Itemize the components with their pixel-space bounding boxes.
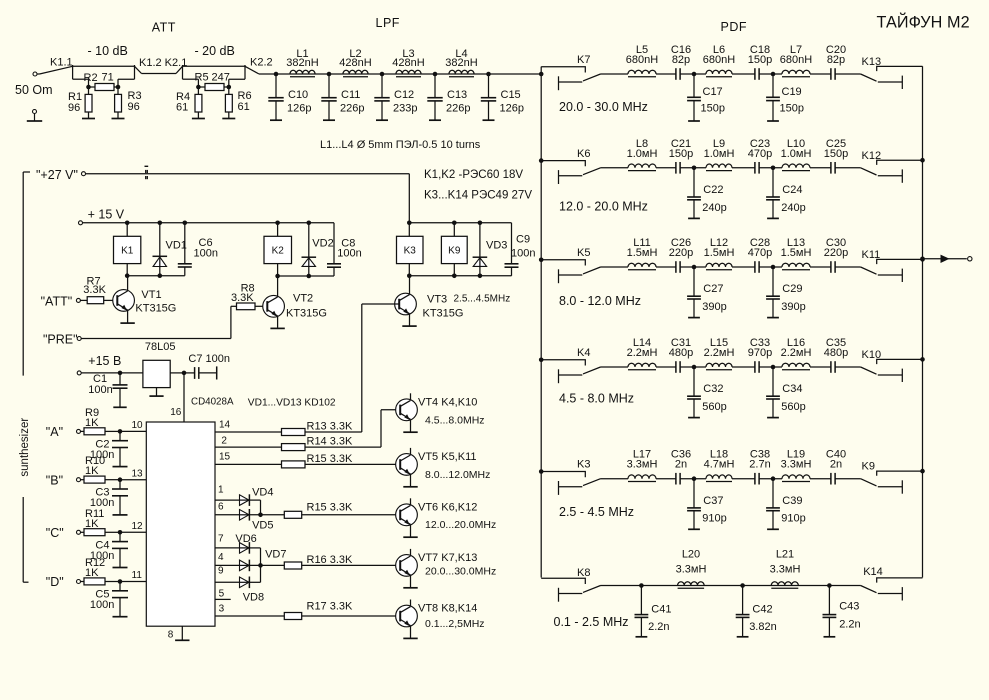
capacitor C1 100n bbox=[119, 373, 121, 385]
svg-text:910p: 910p bbox=[702, 513, 726, 525]
svg-text:C34: C34 bbox=[782, 383, 802, 395]
wire B to pin 13 bbox=[120, 479, 146, 481]
wire K3 bottom bus bbox=[409, 275, 511, 277]
svg-text:480p: 480p bbox=[669, 347, 693, 359]
svg-text:PDF: PDF bbox=[721, 20, 748, 34]
svg-text:3.3мН: 3.3мН bbox=[676, 564, 707, 576]
svg-text:5: 5 bbox=[219, 589, 225, 600]
svg-text:C27: C27 bbox=[703, 283, 723, 295]
svg-text:- 10 dB: - 10 dB bbox=[88, 44, 128, 58]
svg-text:2n: 2n bbox=[675, 459, 687, 471]
svg-text:C7 100n: C7 100n bbox=[188, 353, 230, 365]
svg-text:K4: K4 bbox=[577, 347, 590, 359]
node C43 top bbox=[827, 583, 832, 588]
capacitor C43 2.2n bbox=[828, 586, 830, 615]
wire bbox=[810, 266, 831, 268]
svg-text:150p: 150p bbox=[669, 148, 693, 160]
inductor L3 428nH bbox=[396, 70, 421, 74]
svg-text:680nH: 680nH bbox=[703, 54, 735, 66]
svg-text:VT6 K6,K12: VT6 K6,K12 bbox=[418, 502, 477, 514]
capacitor C24 240p bbox=[772, 168, 774, 197]
svg-text:61: 61 bbox=[238, 101, 250, 113]
svg-text:+ 15 V: + 15 V bbox=[88, 208, 125, 222]
node C7 junction bbox=[182, 371, 187, 376]
wire bbox=[810, 366, 831, 368]
wire +15B to 78L05 bbox=[81, 372, 143, 374]
svg-text:390p: 390p bbox=[702, 301, 726, 313]
svg-text:240p: 240p bbox=[702, 202, 726, 214]
node VD4 VD5 junction bbox=[258, 513, 263, 518]
svg-text:L21: L21 bbox=[776, 549, 794, 561]
svg-text:2.2n: 2.2n bbox=[648, 621, 669, 633]
diode VD5 bbox=[240, 510, 250, 521]
svg-text:K14: K14 bbox=[863, 566, 883, 578]
transistor VT2 KT315G bbox=[263, 295, 285, 317]
node shunt1 bbox=[692, 166, 697, 171]
svg-text:VD6: VD6 bbox=[235, 533, 256, 545]
node K3 bottom bbox=[407, 274, 412, 279]
node shunt1 bbox=[692, 476, 697, 481]
wire VD8 out bbox=[249, 581, 260, 583]
node K1 bottom bbox=[125, 273, 130, 278]
svg-text:C19: C19 bbox=[782, 86, 802, 98]
wire pin16 bbox=[183, 373, 185, 422]
wire VD6 out bbox=[249, 547, 260, 549]
wire PRE to R8 bbox=[81, 338, 231, 340]
inductor L21 3.3мН bbox=[771, 582, 798, 586]
node shunt2 bbox=[771, 72, 776, 77]
svg-text:K6: K6 bbox=[577, 148, 590, 160]
svg-text:VT1: VT1 bbox=[141, 289, 161, 301]
wire row bbox=[601, 266, 629, 268]
resistor R1 96 bbox=[88, 79, 90, 94]
svg-text:K3: K3 bbox=[404, 246, 417, 257]
svg-text:1K: 1K bbox=[85, 417, 99, 429]
inductor L9 1.0мН bbox=[706, 164, 732, 168]
svg-text:78L05: 78L05 bbox=[145, 341, 176, 353]
svg-text:480p: 480p bbox=[824, 347, 848, 359]
wire row bbox=[601, 73, 629, 75]
svg-text:680nH: 680nH bbox=[780, 54, 812, 66]
wire row bbox=[601, 478, 629, 480]
svg-text:12: 12 bbox=[132, 521, 144, 532]
IC CD4028A bbox=[146, 422, 215, 626]
svg-text:K9: K9 bbox=[862, 461, 875, 473]
wire bbox=[810, 73, 831, 75]
bus left PDF bbox=[540, 67, 542, 578]
inductor L2 428nH bbox=[343, 70, 368, 74]
node VD6 VD7 junction bbox=[258, 563, 263, 568]
transistor VT1 KT315G bbox=[113, 290, 135, 312]
svg-text:C11: C11 bbox=[341, 89, 360, 101]
svg-text:K7: K7 bbox=[577, 54, 590, 66]
resistor R11 1K bbox=[81, 531, 85, 533]
node C6 top bbox=[183, 221, 188, 226]
svg-text:1: 1 bbox=[218, 485, 224, 496]
svg-text:R16 3.3K: R16 3.3K bbox=[307, 554, 354, 566]
diode VD4 bbox=[240, 495, 250, 506]
relay K3 bbox=[397, 236, 424, 263]
capacitor C37 910p bbox=[693, 479, 695, 508]
inductor L19 3.3мН bbox=[782, 475, 810, 479]
capacitor C27 390p bbox=[693, 267, 695, 296]
relay contact K12 bbox=[877, 160, 923, 165]
svg-text:VD3: VD3 bbox=[486, 240, 507, 252]
capacitor C5 100n bbox=[119, 582, 121, 591]
capacitor C19 150p bbox=[772, 74, 774, 97]
svg-text:K12: K12 bbox=[862, 150, 882, 162]
svg-text:2.5 - 4.5 MHz: 2.5 - 4.5 MHz bbox=[559, 505, 634, 519]
svg-text:970p: 970p bbox=[748, 347, 772, 359]
svg-text:8.0 - 12.0 MHz: 8.0 - 12.0 MHz bbox=[559, 294, 641, 308]
inductor L17 3.3мН bbox=[628, 475, 656, 479]
svg-text:9: 9 bbox=[218, 566, 224, 577]
svg-text:ТАЙФУН М2: ТАЙФУН М2 bbox=[877, 13, 970, 32]
inductor L1 382nH bbox=[290, 70, 315, 74]
svg-text:1.0мН: 1.0мН bbox=[781, 148, 812, 160]
svg-text:4: 4 bbox=[218, 552, 224, 563]
svg-text:1.5мН: 1.5мН bbox=[781, 247, 812, 259]
wire row bbox=[601, 366, 629, 368]
svg-text:R13 3.3K: R13 3.3K bbox=[307, 421, 354, 433]
capacitor C2 100n bbox=[119, 431, 121, 440]
capacitor C3 100n bbox=[119, 480, 121, 489]
relay contact K4 bbox=[541, 360, 585, 366]
resistor R17 3.3K bbox=[284, 613, 301, 620]
capacitor C8 100n bbox=[333, 223, 335, 264]
capacitor C31 480p bbox=[675, 361, 677, 373]
bus right PDF bbox=[922, 66, 924, 577]
relay contact K8 bbox=[541, 578, 585, 584]
relay K9 bbox=[441, 236, 467, 263]
inductor L16 2.2мН bbox=[782, 363, 810, 367]
capacitor C39 910p bbox=[772, 479, 774, 508]
inductor L18 4.7мН bbox=[706, 475, 732, 479]
svg-text:1K: 1K bbox=[85, 465, 99, 477]
svg-text:C32: C32 bbox=[703, 383, 723, 395]
wire bbox=[680, 366, 706, 368]
resistor R15 3.3K bbox=[282, 461, 306, 468]
svg-text:R14 3.3K: R14 3.3K bbox=[307, 436, 354, 448]
svg-text:VT7 K7,K13: VT7 K7,K13 bbox=[418, 552, 477, 564]
node LPF to bus bbox=[539, 72, 544, 77]
capacitor C32 560p bbox=[693, 367, 695, 396]
capacitor C22 240p bbox=[693, 168, 695, 197]
svg-text:K8: K8 bbox=[577, 567, 590, 579]
relay contact K3 bbox=[541, 472, 585, 478]
node pad2 right bbox=[227, 85, 232, 90]
svg-text:226p: 226p bbox=[446, 103, 470, 115]
svg-text:15: 15 bbox=[219, 451, 231, 462]
inductor L13 1.5мН bbox=[782, 263, 810, 267]
wire R14 to VT4 base bbox=[305, 446, 381, 448]
capacitor C21 150p bbox=[675, 162, 677, 174]
svg-text:VT5 K5,K11: VT5 K5,K11 bbox=[418, 451, 477, 463]
svg-text:"A": "A" bbox=[46, 425, 63, 439]
svg-text:8.0...12.0MHz: 8.0...12.0MHz bbox=[425, 469, 490, 481]
svg-text:150p: 150p bbox=[748, 54, 772, 66]
resistor R14 3.3K bbox=[282, 444, 306, 451]
svg-text:3.3мН: 3.3мН bbox=[627, 459, 658, 471]
node K9 bottom bbox=[452, 274, 457, 279]
svg-text:VT3: VT3 bbox=[427, 294, 447, 306]
svg-text:82p: 82p bbox=[827, 54, 845, 66]
wire bbox=[759, 266, 782, 268]
svg-text:470p: 470p bbox=[748, 247, 772, 259]
capacitor C10 126p bbox=[275, 74, 277, 98]
resistor R5 247 bbox=[198, 86, 205, 88]
wire A to pin 10 bbox=[120, 430, 146, 432]
svg-text:R15 3.3K: R15 3.3K bbox=[307, 453, 354, 465]
input terminal 50 Om bbox=[33, 72, 37, 76]
svg-text:2.5...4.5MHz: 2.5...4.5MHz bbox=[454, 294, 511, 305]
wire bbox=[656, 478, 676, 480]
svg-text:428nH: 428nH bbox=[339, 57, 371, 69]
resistor R6 61 bbox=[228, 79, 230, 94]
svg-text:K1: K1 bbox=[121, 246, 134, 257]
svg-text:C43: C43 bbox=[839, 601, 859, 613]
wire K2 bottom bus bbox=[278, 275, 334, 277]
svg-text:K2.2: K2.2 bbox=[250, 56, 273, 68]
wire bbox=[732, 167, 755, 169]
node C12 top bbox=[380, 72, 385, 77]
node C3 top bbox=[118, 477, 123, 482]
svg-text:7: 7 bbox=[218, 533, 224, 544]
svg-text:20.0...30.0MHz: 20.0...30.0MHz bbox=[425, 565, 496, 577]
svg-text:"C": "C" bbox=[46, 526, 64, 540]
svg-text:K13: K13 bbox=[862, 56, 882, 68]
wire bbox=[656, 266, 676, 268]
transistor VT5 K5,K11 bbox=[396, 454, 418, 476]
wire R13 to VT3 base bbox=[305, 431, 362, 433]
resistor R9 1K bbox=[81, 430, 85, 432]
svg-text:C15: C15 bbox=[501, 89, 521, 101]
relay contact K5 bbox=[541, 260, 585, 266]
wire R15b to VT6 base bbox=[302, 514, 401, 516]
svg-text:560p: 560p bbox=[702, 401, 726, 413]
node C11 top bbox=[327, 72, 332, 77]
resistor R16 3.3K bbox=[284, 562, 301, 569]
inductor L20 3.3мН bbox=[678, 582, 705, 586]
svg-text:C24: C24 bbox=[782, 184, 802, 196]
capacitor C41 2.2n bbox=[640, 586, 642, 615]
inductor L10 1.0мН bbox=[782, 164, 810, 168]
wire bbox=[732, 478, 755, 480]
inductor L6 680nH bbox=[706, 70, 732, 74]
transistor VT7 K7,K13 bbox=[396, 555, 418, 577]
svg-text:C41: C41 bbox=[651, 604, 671, 616]
svg-text:C42: C42 bbox=[752, 604, 772, 616]
svg-text:K1.2 K2.1: K1.2 K2.1 bbox=[139, 57, 187, 69]
svg-text:"+27 V": "+27 V" bbox=[36, 168, 78, 182]
svg-text:100n: 100n bbox=[337, 248, 361, 260]
svg-text:C17: C17 bbox=[703, 86, 723, 98]
svg-text:100n: 100n bbox=[194, 248, 218, 260]
svg-text:0.1 - 2.5 MHz: 0.1 - 2.5 MHz bbox=[554, 615, 629, 629]
svg-text:VD2: VD2 bbox=[312, 238, 333, 250]
node C15 top bbox=[486, 72, 491, 77]
svg-text:VT8 K8,K14: VT8 K8,K14 bbox=[418, 603, 477, 615]
transistor VT3 KT315G bbox=[395, 293, 417, 315]
svg-text:12.0 - 20.0 MHz: 12.0 - 20.0 MHz bbox=[559, 200, 648, 214]
svg-text:150p: 150p bbox=[701, 102, 725, 114]
wire bbox=[759, 478, 782, 480]
svg-text:61: 61 bbox=[176, 102, 188, 114]
svg-text:C9: C9 bbox=[516, 234, 530, 246]
svg-text:"D": "D" bbox=[46, 575, 64, 589]
svg-text:3.3K: 3.3K bbox=[231, 292, 254, 304]
capacitor C17 150p bbox=[693, 74, 695, 97]
svg-text:K5: K5 bbox=[577, 247, 590, 259]
wire bbox=[835, 478, 861, 480]
wire R15 to VT5 base bbox=[305, 463, 400, 465]
relay contacts K1.2 K2.1 bbox=[135, 66, 142, 73]
wire bbox=[835, 266, 861, 268]
wire K3 rail bbox=[409, 222, 511, 224]
connector jumper on +27V bbox=[145, 165, 149, 167]
wire bbox=[680, 167, 706, 169]
capacitor C36 2n bbox=[675, 473, 677, 485]
resistor R15b 3.3K bbox=[284, 511, 301, 518]
svg-text:C22: C22 bbox=[703, 184, 723, 196]
node bus K10 bbox=[920, 357, 925, 362]
resistor R8 3.3K bbox=[231, 305, 237, 307]
node VD1 top bbox=[158, 221, 163, 226]
capacitor C33 970p bbox=[754, 361, 756, 373]
diode VD6 bbox=[240, 543, 250, 554]
svg-text:VT2: VT2 bbox=[293, 293, 313, 305]
svg-text:"PRE": "PRE" bbox=[43, 333, 78, 347]
svg-text:11: 11 bbox=[132, 570, 143, 581]
svg-text:3.3мН: 3.3мН bbox=[770, 564, 801, 576]
svg-text:150p: 150p bbox=[824, 148, 848, 160]
svg-text:C13: C13 bbox=[447, 89, 467, 101]
wire bbox=[835, 73, 861, 75]
svg-text:71: 71 bbox=[102, 72, 114, 84]
node shunt2 bbox=[771, 166, 776, 171]
svg-text:2n: 2n bbox=[830, 459, 842, 471]
svg-text:R2: R2 bbox=[84, 72, 98, 84]
node shunt1 bbox=[692, 265, 697, 270]
resistor R7 3.3K bbox=[80, 299, 87, 301]
svg-text:910p: 910p bbox=[781, 513, 805, 525]
svg-text:LPF: LPF bbox=[376, 16, 400, 30]
node shunt2 bbox=[771, 365, 776, 370]
capacitor C28 470p bbox=[754, 261, 756, 273]
svg-text:390p: 390p bbox=[781, 301, 805, 313]
wire VD4 out bbox=[249, 499, 260, 501]
svg-text:2.2мН: 2.2мН bbox=[704, 347, 735, 359]
relay contact K2.2 bbox=[245, 66, 259, 74]
node bus K9 bbox=[920, 469, 925, 474]
wire bbox=[656, 366, 676, 368]
resistor R12 1K bbox=[81, 581, 85, 583]
svg-text:C10: C10 bbox=[288, 89, 308, 101]
svg-text:150p: 150p bbox=[780, 102, 804, 114]
wire bbox=[732, 73, 755, 75]
svg-text:14: 14 bbox=[219, 420, 231, 431]
svg-text:C12: C12 bbox=[394, 89, 414, 101]
svg-text:470p: 470p bbox=[748, 148, 772, 160]
svg-text:560p: 560p bbox=[781, 401, 805, 413]
node bus K4 bbox=[539, 358, 544, 363]
svg-text:680nH: 680nH bbox=[626, 54, 658, 66]
svg-text:10: 10 bbox=[132, 420, 144, 431]
regulator 78L05 bbox=[143, 360, 170, 387]
diode VD3 bbox=[479, 223, 481, 257]
svg-text:50 Om: 50 Om bbox=[15, 83, 53, 97]
inductor L7 680nH bbox=[782, 70, 810, 74]
node C5 top bbox=[118, 579, 123, 584]
capacitor C20 82p bbox=[830, 68, 832, 80]
node pad1 left bbox=[86, 85, 91, 90]
capacitor C11 226p bbox=[328, 74, 330, 98]
wire R16 to VT7 base bbox=[302, 564, 401, 566]
resistor R10 1K bbox=[81, 479, 85, 481]
svg-text:sunthesizer: sunthesizer bbox=[19, 418, 31, 477]
wire D to pin 11 bbox=[120, 581, 146, 583]
svg-text:R15 3.3K: R15 3.3K bbox=[307, 502, 354, 514]
wire to R15b bbox=[249, 514, 284, 516]
svg-text:4.7мН: 4.7мН bbox=[704, 459, 735, 471]
node bus K6 bbox=[539, 158, 544, 163]
node bus K3 bbox=[539, 469, 544, 474]
svg-text:VD7: VD7 bbox=[265, 549, 286, 561]
inductor L12 1.5мН bbox=[706, 263, 732, 267]
capacitor C15 126p bbox=[488, 74, 490, 98]
capacitor C12 233p bbox=[381, 74, 383, 98]
wire pad1 right bracket bbox=[134, 65, 136, 79]
diode VD8 bbox=[240, 577, 250, 588]
capacitor C25 150p bbox=[830, 162, 832, 174]
node shunt2 bbox=[771, 265, 776, 270]
ground terminal at input bbox=[33, 110, 37, 114]
resistor R4 61 bbox=[197, 79, 199, 94]
node C13 top bbox=[433, 72, 438, 77]
node K2 bottom bbox=[275, 274, 280, 279]
wire bbox=[680, 73, 706, 75]
svg-text:1.5мН: 1.5мН bbox=[704, 247, 735, 259]
svg-text:247: 247 bbox=[212, 72, 230, 84]
node C41 top bbox=[639, 583, 644, 588]
svg-text:VD1: VD1 bbox=[166, 240, 187, 252]
svg-text:L1...L4 Ø 5mm ПЭЛ-0.5 10 turn: L1...L4 Ø 5mm ПЭЛ-0.5 10 turns bbox=[320, 139, 481, 151]
capacitor C23 470p bbox=[754, 162, 756, 174]
relay K1 bbox=[114, 236, 141, 263]
node K1 top bbox=[125, 221, 130, 226]
svg-text:VD5: VD5 bbox=[252, 519, 273, 531]
svg-text:3: 3 bbox=[219, 603, 225, 614]
capacitor C18 150p bbox=[754, 68, 756, 80]
wire bbox=[759, 73, 782, 75]
svg-text:K1,K2 -РЭС60 18V: K1,K2 -РЭС60 18V bbox=[424, 169, 523, 181]
capacitor C34 560p bbox=[772, 367, 774, 396]
svg-text:KT315G: KT315G bbox=[423, 308, 464, 320]
svg-text:KT315G: KT315G bbox=[135, 303, 176, 315]
svg-text:8: 8 bbox=[168, 630, 174, 641]
node pad2 left bbox=[196, 85, 201, 90]
svg-text:100n: 100n bbox=[88, 384, 112, 396]
svg-text:96: 96 bbox=[128, 101, 140, 113]
svg-text:82p: 82p bbox=[672, 54, 690, 66]
svg-text:1.0мН: 1.0мН bbox=[627, 148, 658, 160]
relay contact K10 bbox=[877, 359, 923, 364]
svg-text:100n: 100n bbox=[90, 599, 114, 611]
output terminal bbox=[968, 257, 972, 261]
resistor R2 71 bbox=[89, 86, 96, 88]
wire bbox=[835, 167, 861, 169]
svg-text:4.5...8.0MHz: 4.5...8.0MHz bbox=[425, 415, 485, 427]
